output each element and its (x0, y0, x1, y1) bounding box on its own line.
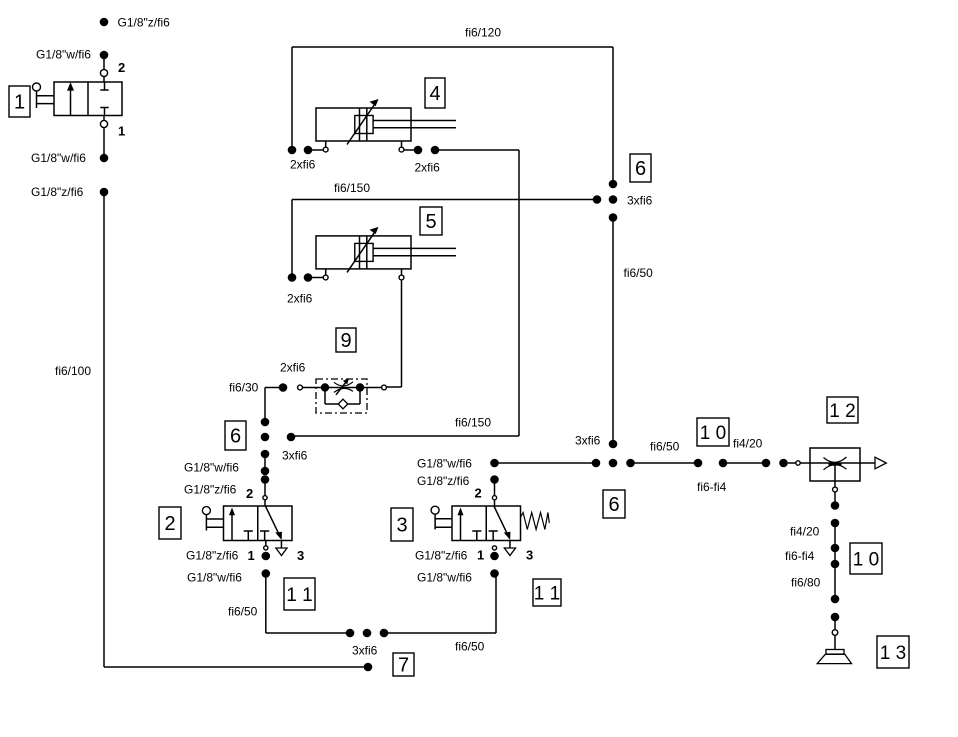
box label 5 (420, 207, 442, 235)
node G1/8"w/fi6 (100, 154, 109, 163)
wire fi6/120 (292, 46, 613, 48)
svg-text:1 1: 1 1 (534, 583, 560, 604)
svg-text:G1/8"w/fi6: G1/8"w/fi6 (184, 461, 239, 475)
wire (834, 492, 836, 506)
wire fi6/100 (103, 192, 105, 667)
pushbutton actuator of valve 1 (33, 83, 41, 91)
pushbutton actuator of valve 2 (202, 507, 210, 515)
svg-text:fi6/50: fi6/50 (624, 266, 654, 280)
svg-text:3: 3 (526, 548, 533, 563)
wire fi6/50 to 10 (631, 462, 699, 464)
svg-text:fi6/150: fi6/150 (334, 181, 370, 195)
wire from fi6/120 down (612, 47, 614, 184)
cylinder 4 (316, 108, 411, 141)
node (262, 569, 271, 578)
svg-text:G1/8"w/fi6: G1/8"w/fi6 (36, 48, 91, 62)
svg-text:6: 6 (635, 158, 646, 180)
svg-text:2xfi6: 2xfi6 (287, 292, 313, 306)
svg-text:9: 9 (340, 330, 351, 352)
port below 12 (834, 481, 836, 487)
node (609, 213, 618, 222)
box label 4 (425, 78, 445, 108)
silencer 13 (826, 650, 844, 655)
node 3xfi6 right top (609, 180, 618, 189)
wire (308, 277, 323, 279)
wire cylinder5 right port down (401, 280, 403, 387)
svg-text:G1/8"z/fi6: G1/8"z/fi6 (186, 549, 239, 563)
svg-text:G1/8"z/fi6: G1/8"z/fi6 (184, 483, 237, 497)
svg-text:3: 3 (396, 515, 407, 537)
node fittings 10 column (831, 519, 840, 528)
node (490, 569, 499, 578)
node fittings 6 column (261, 418, 270, 427)
svg-text:3xfi6: 3xfi6 (627, 194, 653, 208)
node (490, 552, 499, 561)
nozzle 12 body (810, 448, 860, 481)
box label 7 (393, 653, 414, 676)
node junction 3xfi6 (592, 459, 601, 468)
svg-text:2: 2 (475, 486, 482, 501)
wire (384, 632, 496, 634)
cylinder 5 (316, 236, 411, 269)
valve V1 flow arrow (70, 89, 72, 116)
box label 6 bottom right (603, 490, 625, 518)
port 2 of valve 2 (263, 496, 267, 500)
node 2xfi6 cylinder4 left (288, 146, 297, 155)
svg-text:fi6-fi4: fi6-fi4 (697, 480, 727, 494)
svg-text:2xfi6: 2xfi6 (280, 361, 306, 375)
svg-text:fi4/20: fi4/20 (733, 437, 763, 451)
node 3xfi6 end (364, 663, 373, 672)
box label 13 (877, 636, 909, 668)
wire fi6/30 (265, 387, 283, 389)
node 2xfi6 cylinder5 left (288, 273, 297, 282)
svg-text:1 0: 1 0 (853, 549, 879, 570)
svg-text:fi6/50: fi6/50 (228, 605, 258, 619)
svg-text:1 2: 1 2 (829, 401, 855, 422)
box label 1 (9, 86, 30, 117)
svg-text:G1/8"z/fi6: G1/8"z/fi6 (31, 185, 84, 199)
svg-text:G1/8"z/fi6: G1/8"z/fi6 (417, 474, 470, 488)
svg-text:fi6/30: fi6/30 (229, 381, 259, 395)
box label 6 (225, 421, 246, 450)
svg-text:fi6-fi4: fi6-fi4 (785, 549, 815, 563)
box label 12 (827, 397, 858, 423)
svg-text:fi6/100: fi6/100 (55, 364, 91, 378)
node 2xfi6 cylinder4 right (404, 149, 418, 151)
wire fi6/50 right column (612, 218, 614, 445)
svg-text:7: 7 (398, 655, 409, 677)
port 1 of valve 1 (103, 116, 105, 121)
svg-text:2xfi6: 2xfi6 (415, 161, 441, 175)
svg-text:fi6/50: fi6/50 (650, 440, 680, 454)
check valve of 9 (338, 399, 348, 409)
node (831, 613, 840, 622)
svg-text:fi6/50: fi6/50 (455, 640, 485, 654)
svg-text:fi6/80: fi6/80 (791, 576, 821, 590)
box label 10 (697, 418, 729, 446)
valve V3 3/2 body with spring (452, 506, 521, 541)
node (831, 501, 840, 510)
node G1/8"z/fi6 (100, 188, 109, 197)
valve V1 2/2 body (54, 82, 122, 116)
svg-text:6: 6 (230, 426, 241, 448)
wire (103, 55, 105, 70)
box label 11 (284, 578, 315, 610)
node 3xfi6 bottom (346, 629, 355, 638)
wire G1/8"w to bus (495, 462, 597, 464)
svg-text:5: 5 (425, 211, 436, 233)
box label 11 right (533, 579, 561, 606)
svg-text:1: 1 (118, 124, 125, 139)
valve V2 3/2 body (224, 506, 293, 541)
svg-text:G1/8"w/fi6: G1/8"w/fi6 (417, 571, 472, 585)
box label 6 top right (630, 154, 651, 182)
svg-text:1: 1 (14, 92, 25, 114)
wire into nozzle 12 (800, 462, 875, 464)
svg-text:3xfi6: 3xfi6 (282, 449, 308, 463)
flow control valve 9 right port (382, 385, 387, 390)
port 1 of valve 2 (265, 541, 267, 546)
svg-text:fi4/20: fi4/20 (790, 525, 820, 539)
adjust arrow of 9 (336, 382, 346, 395)
wire (308, 149, 323, 151)
pushbutton actuator of valve 3 (431, 506, 439, 514)
svg-text:3: 3 (297, 548, 304, 563)
node fittings above valve 3 (490, 459, 499, 468)
wire fi6/150 (292, 199, 597, 201)
node (262, 552, 271, 561)
svg-text:fi6/150: fi6/150 (455, 416, 491, 430)
node (694, 459, 703, 468)
flow control valve 9 left port (298, 385, 303, 390)
wire (103, 77, 105, 82)
svg-text:G1/8"w/fi6: G1/8"w/fi6 (31, 151, 86, 165)
wire to fi6/150 lower (435, 149, 519, 151)
port of silencer (832, 630, 838, 636)
svg-text:1 1: 1 1 (286, 585, 312, 606)
svg-text:4: 4 (429, 83, 440, 105)
wire fi6/50 valve2 down (265, 574, 267, 634)
box label 3 (391, 508, 413, 541)
throttle arcs of 9 (334, 382, 353, 386)
wire (103, 128, 105, 154)
svg-text:3xfi6: 3xfi6 (352, 644, 378, 658)
exhaust triangle of 12 (875, 457, 886, 469)
svg-text:G1/8"z/fi6: G1/8"z/fi6 (118, 16, 171, 30)
svg-text:2: 2 (164, 513, 175, 535)
node (609, 440, 618, 449)
svg-text:2: 2 (118, 60, 125, 75)
node (779, 459, 788, 468)
svg-text:1 3: 1 3 (880, 643, 906, 664)
svg-text:2xfi6: 2xfi6 (290, 158, 316, 172)
wire (834, 635, 836, 650)
box label 2 (159, 507, 181, 539)
node G1/8"z/fi6 top (100, 18, 109, 27)
svg-text:G1/8"w/fi6: G1/8"w/fi6 (417, 457, 472, 471)
svg-text:1: 1 (248, 548, 255, 563)
svg-text:2: 2 (246, 486, 253, 501)
port 1 of valve 3 (492, 546, 496, 550)
port 2 of valve 3 (492, 496, 496, 500)
port of nozzle 12 (788, 462, 796, 464)
svg-text:1 0: 1 0 (700, 423, 726, 444)
svg-text:1: 1 (477, 548, 484, 563)
svg-text:G1/8"w/fi6: G1/8"w/fi6 (187, 571, 242, 585)
flow control valve 9 dashed enclosure (316, 379, 367, 413)
node (279, 383, 288, 392)
valve V1 blocked ports (104, 82, 106, 90)
port 2 of valve 1 (100, 69, 107, 76)
box label 9 (336, 328, 356, 352)
svg-text:G1/8"z/fi6: G1/8"z/fi6 (415, 549, 468, 563)
svg-text:6: 6 (608, 494, 619, 516)
flow control valve 9 body (302, 387, 381, 389)
svg-text:3xfi6: 3xfi6 (575, 434, 601, 448)
svg-text:fi6/120: fi6/120 (465, 26, 501, 40)
node G1/8"w/fi6 (100, 51, 109, 60)
box label 10 right (850, 543, 882, 574)
